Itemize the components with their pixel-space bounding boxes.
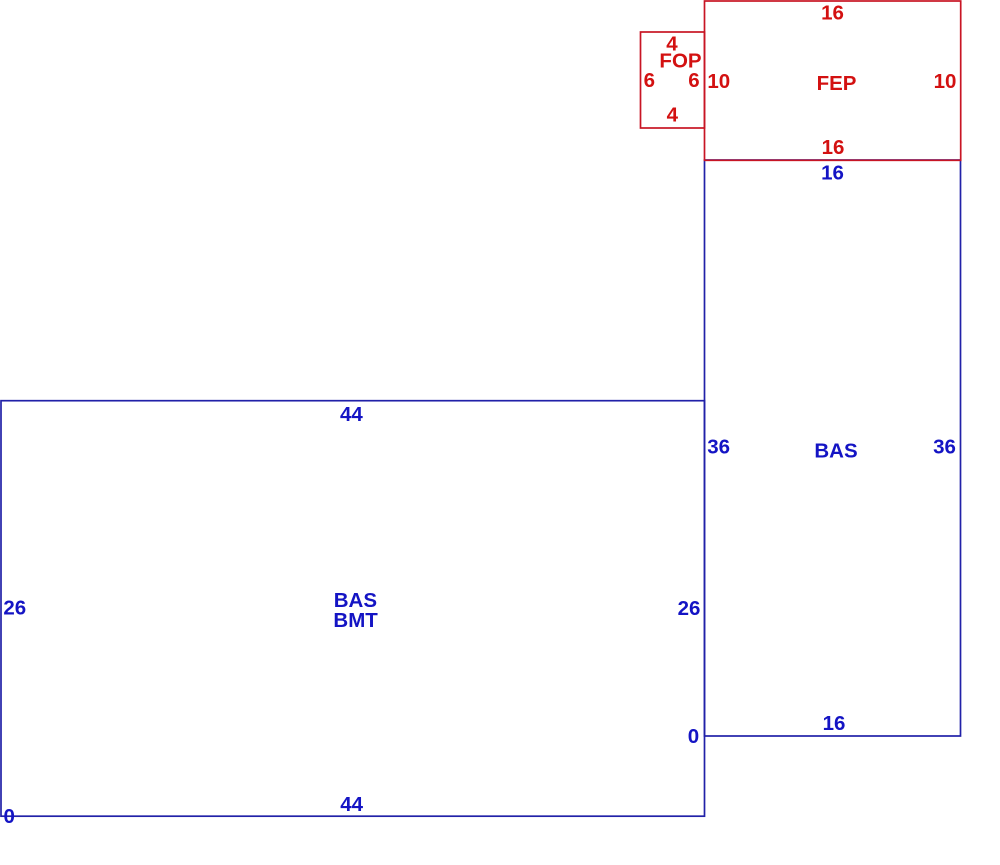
svg-text:BMT: BMT <box>333 609 378 632</box>
svg-text:44: 44 <box>340 793 363 816</box>
svg-text:16: 16 <box>822 136 845 159</box>
svg-text:16: 16 <box>823 712 846 735</box>
svg-text:BAS: BAS <box>814 440 857 463</box>
svg-text:26: 26 <box>678 597 701 620</box>
svg-text:44: 44 <box>340 403 363 426</box>
svg-text:6: 6 <box>644 69 655 92</box>
area BAS/BMT (main) outline <box>1 401 705 817</box>
svg-text:0: 0 <box>3 805 14 828</box>
svg-text:FEP: FEP <box>817 72 857 95</box>
svg-text:16: 16 <box>821 2 844 25</box>
svg-text:10: 10 <box>934 70 957 93</box>
svg-text:6: 6 <box>688 69 699 92</box>
svg-text:4: 4 <box>667 103 679 126</box>
svg-text:16: 16 <box>821 162 844 185</box>
svg-text:26: 26 <box>3 596 26 619</box>
area FEP outline <box>705 1 961 160</box>
area FOP outline <box>641 32 705 128</box>
svg-text:36: 36 <box>707 436 730 459</box>
svg-text:10: 10 <box>707 70 730 93</box>
svg-text:0: 0 <box>688 725 699 748</box>
svg-text:36: 36 <box>933 436 956 459</box>
area BAS (right wing) outline <box>705 160 961 736</box>
